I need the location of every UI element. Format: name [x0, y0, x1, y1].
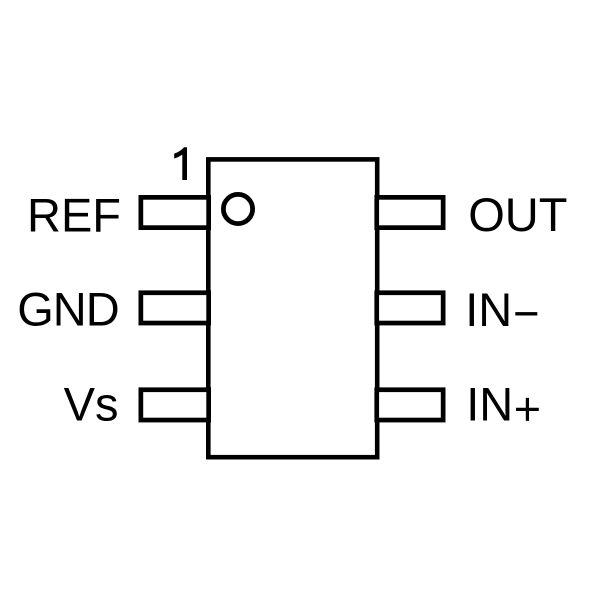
pin number 1: [174, 147, 187, 180]
pin 3 Vs lead: [141, 390, 209, 420]
pin 5 IN- lead: [377, 293, 443, 323]
svg-text:OUT: OUT: [468, 188, 567, 241]
IC package body U1: [208, 159, 377, 457]
svg-text:REF: REF: [27, 188, 121, 241]
pin 1 REF lead: [141, 197, 209, 227]
svg-text:GND: GND: [17, 283, 118, 336]
svg-text:IN: IN: [466, 378, 513, 431]
svg-text:Vs: Vs: [64, 377, 119, 430]
svg-text:IN: IN: [465, 283, 512, 336]
pin 6 OUT lead: [377, 197, 443, 227]
pin 2 GND lead: [141, 293, 209, 323]
label IN- minus bar: [515, 312, 537, 315]
label IN+ plus sign: [516, 398, 539, 421]
pin 4 IN+ lead: [377, 390, 443, 420]
pin 1 indicator circle: [223, 194, 252, 223]
